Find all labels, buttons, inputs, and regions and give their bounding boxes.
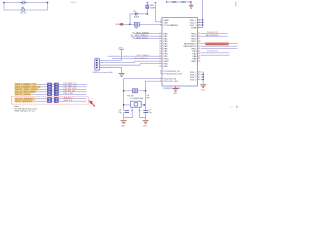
- resistor row 7 a: [48, 100, 52, 102]
- resistor row 1 a: [48, 83, 52, 85]
- svg-text:MCU_SWCLK: MCU_SWCLK: [15, 101, 33, 103]
- wire vdd drop: [154, 2, 162, 21]
- node xtal right: [144, 104, 145, 105]
- svg-text:Y1 16MHz 9pF: Y1 16MHz 9pF: [130, 98, 144, 100]
- selection box dashed: [11, 97, 88, 105]
- resistor R1: [20, 7, 26, 14]
- node fb right: [145, 90, 146, 91]
- wire jtdo left: [134, 38, 163, 40]
- crystal Y1: [124, 101, 146, 107]
- mcu right pin names: [183, 20, 197, 82]
- resistor row 3 b: [54, 88, 58, 90]
- svg-text:SWD (In reverse half): SWD (In reverse half): [93, 71, 113, 74]
- wire 3v3 pin1: [101, 49, 122, 60]
- wire OSC_IN: [124, 79, 162, 111]
- svg-text:600R: 600R: [150, 7, 155, 9]
- node loop top-right: [47, 2, 48, 3]
- svg-text:100nF: 100nF: [134, 17, 140, 19]
- wire row 1: [37, 83, 48, 85]
- node NRST junction: [129, 24, 130, 25]
- port NRST: [116, 23, 123, 26]
- svg-text:SWCLK: SWCLK: [64, 100, 74, 102]
- connector pin stubs: [100, 60, 101, 67]
- svg-text:R11 BOOT1: R11 BOOT1: [207, 51, 219, 53]
- node fb left: [123, 90, 124, 91]
- svg-text:0R 1%: 0R 1%: [20, 13, 26, 15]
- battery BT1: [21, 1, 27, 9]
- svg-text:MCU_BOOT1: MCU_BOOT1: [206, 35, 219, 37]
- wire gnd pin4: [101, 68, 122, 74]
- capacitor C9: [133, 11, 140, 18]
- ferrite bead FB1: [146, 2, 156, 14]
- resistor row 1 b: [54, 83, 58, 85]
- wire BOOT0: [201, 33, 228, 35]
- svg-text:NRST: NRST: [116, 24, 122, 26]
- mcu right pin numbers: [198, 19, 201, 81]
- svg-text:STM32F103CBT6: STM32F103CBT6: [163, 88, 181, 90]
- net row 4 highlighted label: [15, 91, 37, 93]
- capacitor C7: [143, 110, 152, 114]
- svg-text:FB2: FB2: [135, 28, 138, 30]
- resistor row 4 a: [48, 91, 52, 93]
- svg-text:PD1-OSC_OUT: PD1-OSC_OUT: [164, 81, 180, 83]
- ground rail end: [189, 2, 194, 8]
- ground vss right: [200, 85, 206, 88]
- capacitor C6: [118, 110, 129, 114]
- svg-text:VSSA: VSSA: [191, 26, 197, 29]
- mcu U1 box: [162, 18, 198, 87]
- resistor row 5 a: [48, 93, 52, 95]
- resistor row 2 b: [54, 86, 58, 88]
- wire filter top: [130, 13, 147, 15]
- wire swdio left: [134, 33, 163, 35]
- svg-text:MCU_SWCLK: MCU_SWCLK: [135, 58, 148, 60]
- resistor row 4 b: [54, 91, 58, 93]
- mcu left pin names: [164, 19, 183, 83]
- battery loop wire: [4, 3, 48, 11]
- svg-text:MCU_LED: MCU_LED: [15, 94, 31, 96]
- node filter junction: [147, 13, 148, 14]
- net row 6 highlighted label: [15, 98, 36, 100]
- wire vdd bus vertical: [198, 0, 203, 28]
- connector J1 SWD: [95, 58, 100, 70]
- wire vss tie: [201, 72, 203, 84]
- resistor R9: [132, 89, 137, 93]
- net row 7 highlighted label: [15, 100, 34, 102]
- svg-text:PC13-TAMPER: PC13-TAMPER: [164, 24, 179, 27]
- wire feedback: [124, 90, 146, 92]
- svg-text:R10 BOOT0: R10 BOOT0: [207, 32, 219, 34]
- svg-text:PA10: PA10: [191, 60, 197, 63]
- svg-text:GND: GND: [201, 90, 206, 92]
- node xtal left: [123, 104, 124, 105]
- wire row 4: [36, 91, 48, 93]
- wire swclk left: [131, 35, 162, 37]
- ground xtal left: [121, 121, 127, 124]
- wire NRST: [122, 23, 163, 25]
- wire OSC_OUT: [146, 81, 162, 110]
- wire row3: [201, 48, 238, 50]
- net row 5 highlighted label: [15, 93, 32, 95]
- wire swdio conn: [101, 61, 135, 63]
- resistor row 5 b: [54, 93, 58, 95]
- wire filter vertical: [129, 14, 131, 24]
- wire boot1: [201, 35, 228, 37]
- resistor row 7 b: [54, 100, 58, 102]
- ground xtal right: [143, 121, 149, 124]
- svg-text:MCU_PWR_ON: MCU_PWR_ON: [207, 44, 223, 46]
- svg-text:MCU_SWDIO: MCU_SWDIO: [137, 55, 150, 57]
- wire fragment top-right: [236, 1, 237, 5]
- mcu right pin stubs: [198, 20, 199, 80]
- svg-text:SWD debug is in use: SWD debug is in use: [15, 111, 36, 113]
- net row 2 highlighted label: [15, 86, 42, 88]
- svg-text:GND: GND: [143, 126, 148, 128]
- node loop top-left: [3, 2, 4, 3]
- svg-text:VBAT rail: VBAT rail: [71, 1, 77, 4]
- resistor row 6 a: [48, 98, 52, 100]
- svg-text:MCU_JTDO: MCU_JTDO: [137, 37, 148, 39]
- mcu left pin numbers: [159, 19, 162, 82]
- wire row 7: [33, 100, 48, 102]
- wire row 3: [39, 88, 48, 90]
- svg-text:PIN_LED: PIN_LED: [64, 93, 74, 95]
- wire swclk row: [201, 45, 238, 47]
- wire row 6: [35, 98, 48, 100]
- ferrite bead FB2: [134, 23, 139, 27]
- node vdd junctions: [202, 19, 203, 25]
- net row 3 highlighted label: [15, 88, 39, 90]
- svg-text:PC15-OSC32_OUT: PC15-OSC32_OUT: [164, 74, 183, 76]
- note text: [15, 105, 38, 112]
- power port 3V3: [119, 48, 124, 50]
- ground mcu bottom: [173, 86, 179, 91]
- ground swd: [119, 74, 125, 77]
- wire row4: [201, 52, 230, 54]
- wire row 2: [41, 86, 48, 88]
- wire nreset row: [108, 55, 163, 57]
- svg-text:GND: GND: [121, 126, 126, 128]
- cursor arrow: [89, 100, 96, 106]
- wire row5: [201, 54, 230, 56]
- wire swclk conn: [101, 64, 140, 65]
- net row 1 highlighted label: [15, 83, 38, 85]
- resistor row 3 a: [48, 88, 52, 90]
- resistor row 6 b: [54, 98, 58, 100]
- node vss junctions: [203, 74, 204, 80]
- wire tdi row: [112, 58, 162, 60]
- wire swdio row: [201, 43, 238, 45]
- mcu left pin stubs: [161, 20, 162, 81]
- wire xtal case: [124, 107, 146, 117]
- resistor row 2 a: [48, 86, 52, 88]
- svg-text:VSS_4: VSS_4: [190, 79, 197, 81]
- power rail 3V3: [166, 1, 191, 3]
- highlight selected net: [205, 43, 228, 46]
- svg-text:GND: GND: [173, 93, 178, 95]
- wire row 5: [31, 93, 48, 95]
- svg-text:BT1: BT1: [22, 4, 25, 6]
